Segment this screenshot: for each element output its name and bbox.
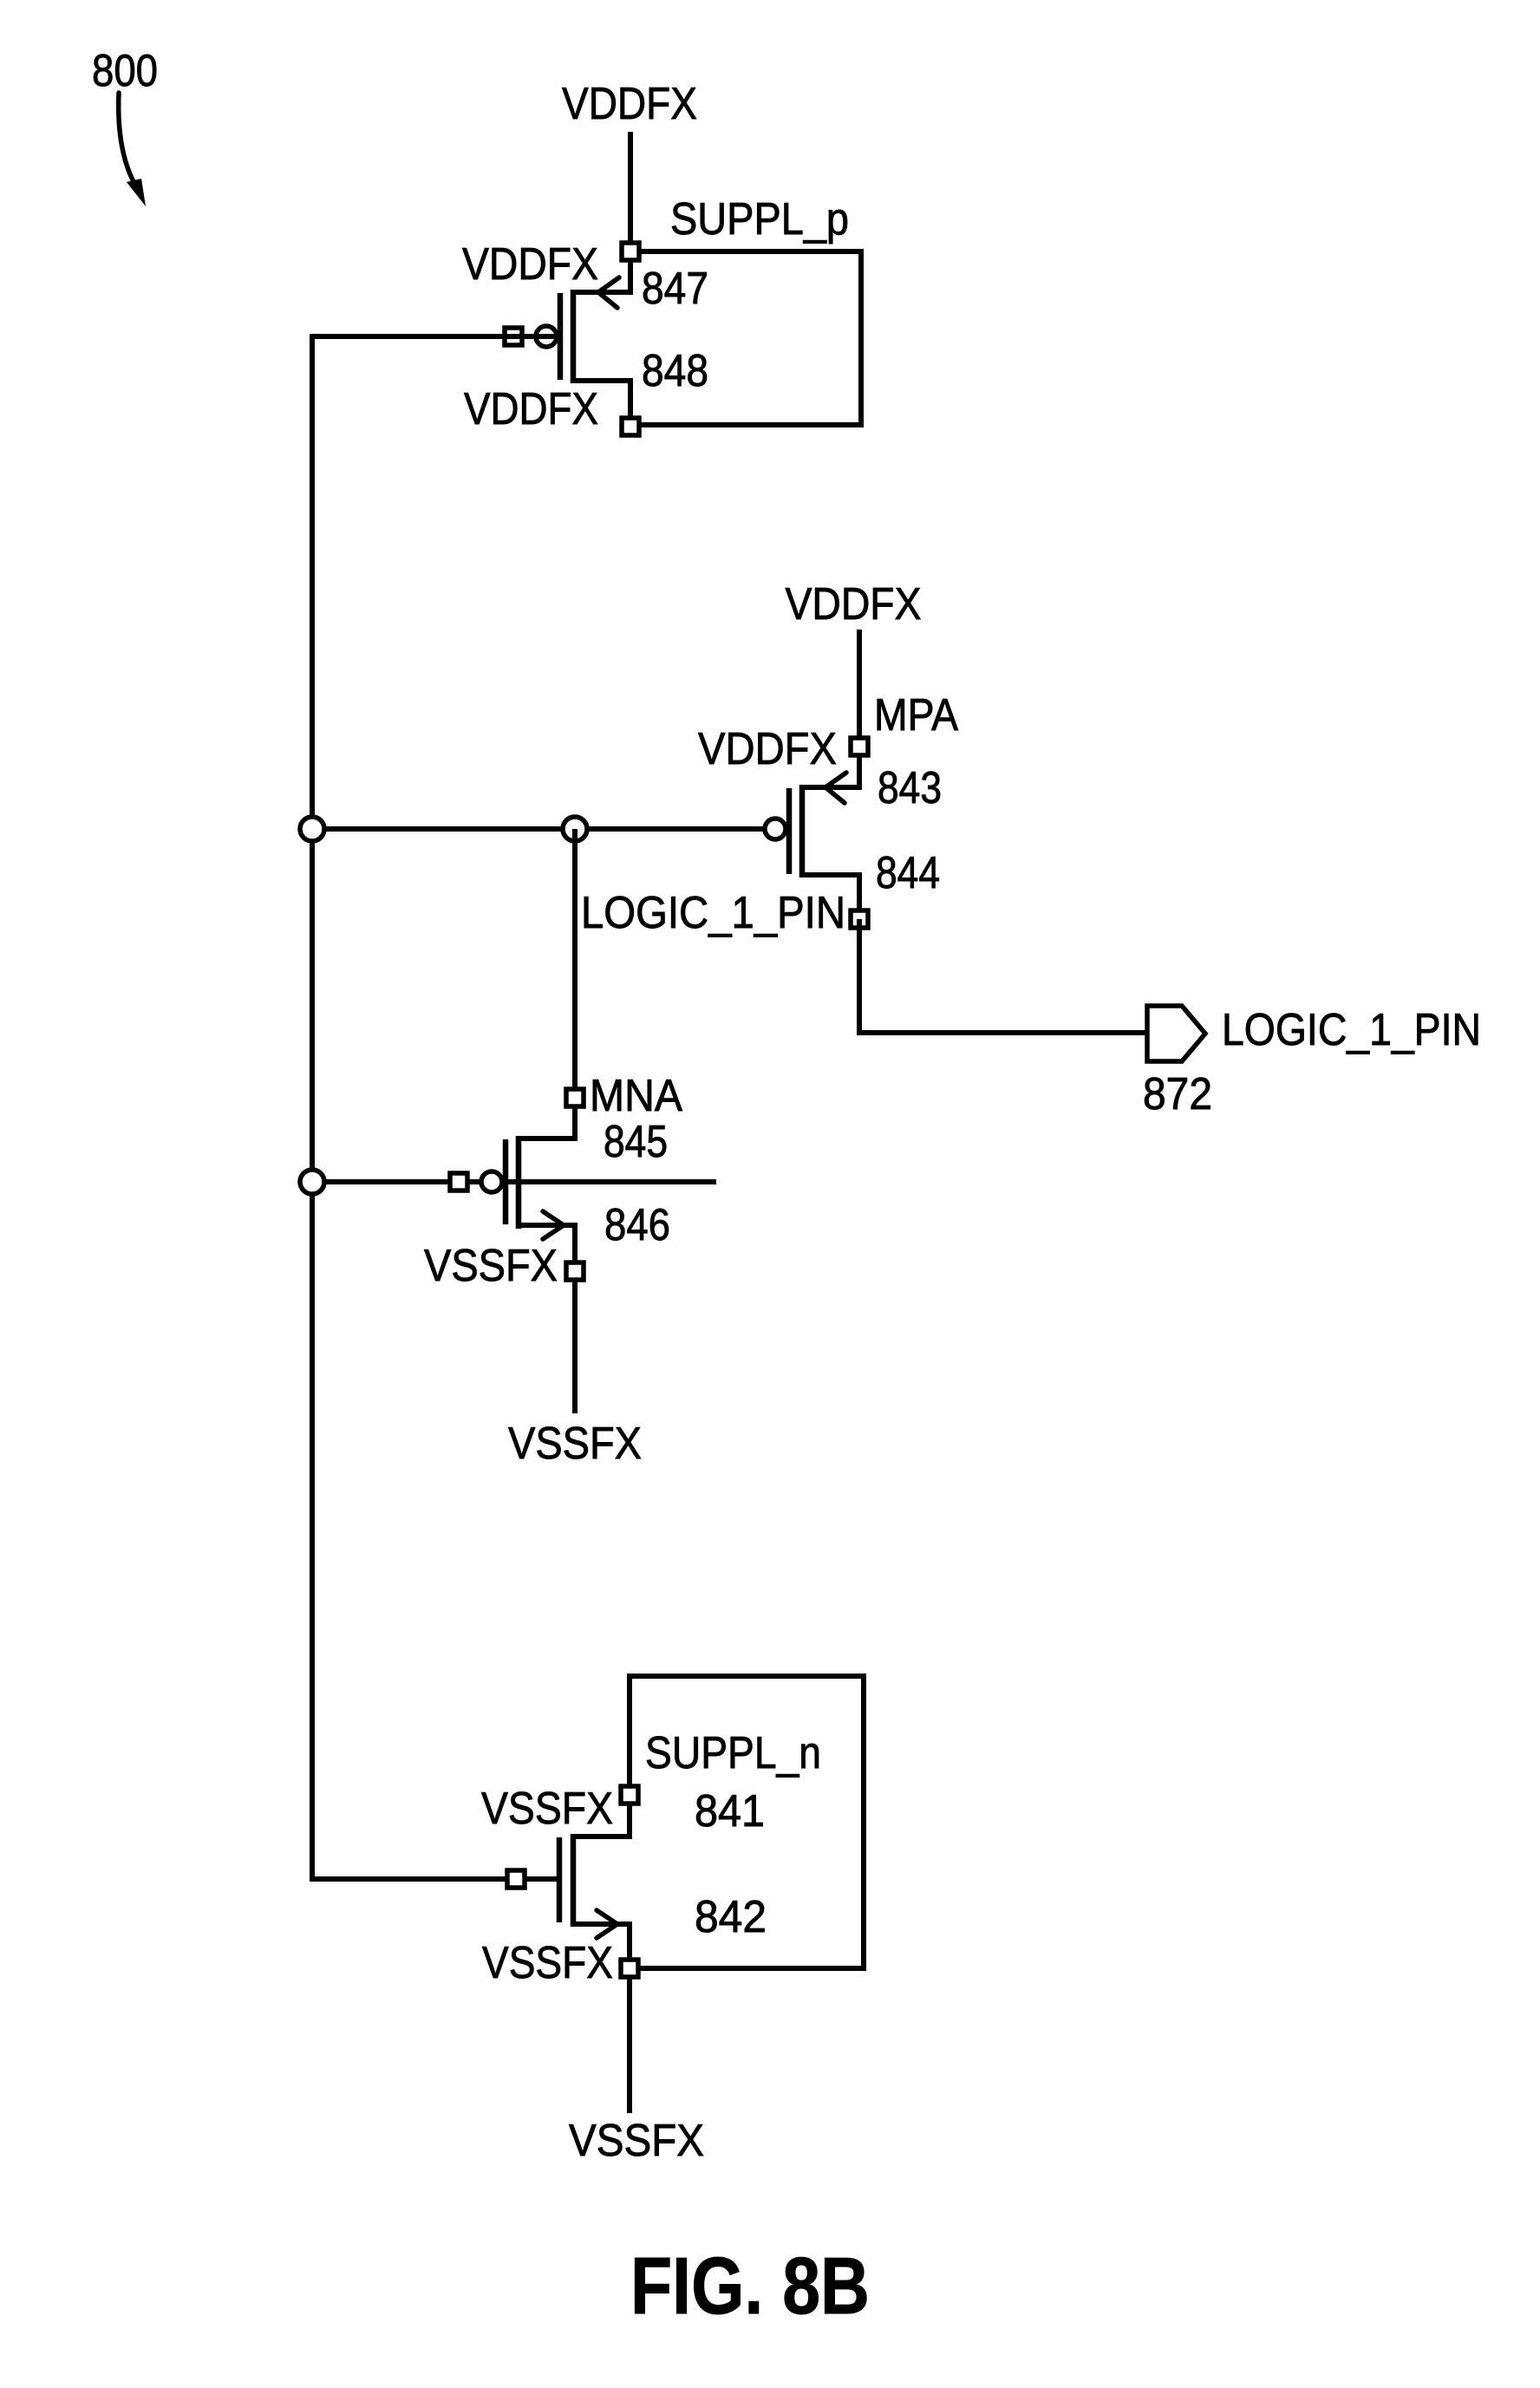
wire drain 842 — [576, 1924, 630, 1968]
svg-text:843: 843 — [878, 763, 942, 813]
arrow drain 842 — [597, 1910, 617, 1938]
pad source MPA — [851, 738, 868, 755]
svg-text:VSSFX: VSSFX — [508, 1419, 642, 1469]
transistor Q847 PMOS — [505, 243, 639, 435]
channel bar MPA — [799, 785, 806, 878]
junction J2 — [563, 817, 587, 841]
wire source 847 — [576, 251, 630, 292]
svg-text:SUPPL_n: SUPPL_n — [645, 1728, 821, 1778]
pad drain 842 — [621, 1960, 638, 1977]
wire source 843 — [805, 747, 859, 787]
svg-text:MPA: MPA — [874, 690, 958, 741]
wire gate row MNA — [312, 1179, 716, 1184]
transistor MPA 843/844 PMOS — [765, 738, 868, 928]
transistor MNA 845/846 NMOS — [312, 1089, 716, 1280]
svg-text:VDDFX: VDDFX — [464, 384, 598, 434]
wire SUPPL_n loop box — [630, 1676, 864, 1968]
junction J1 — [300, 817, 324, 841]
svg-text:841: 841 — [695, 1786, 765, 1837]
svg-text:846: 846 — [604, 1200, 670, 1250]
svg-text:VDDFX: VDDFX — [562, 79, 697, 129]
gate bubble MPA — [765, 819, 786, 839]
wire VDDFX down to pad 847 source — [628, 132, 633, 251]
wire J2 down to MNA — [572, 829, 577, 1098]
svg-text:847: 847 — [642, 264, 708, 314]
wire source 841 — [576, 1795, 630, 1837]
arrow 800 leader — [119, 93, 139, 191]
gate bar MNA — [503, 1139, 509, 1224]
gate pad MNA — [450, 1173, 467, 1191]
wire drain 846 — [521, 1225, 575, 1271]
gate pad 841 — [507, 1870, 525, 1888]
svg-text:SUPPL_p: SUPPL_p — [670, 194, 849, 245]
wire SUPPL_p loop box — [640, 251, 861, 425]
gate bar 847 — [558, 293, 564, 380]
svg-text:MNA: MNA — [590, 1071, 682, 1121]
junction J3 — [300, 1170, 324, 1194]
svg-text:872: 872 — [1143, 1069, 1212, 1119]
pad drain 848 — [622, 418, 639, 435]
arrow source 847 — [598, 277, 619, 308]
gate bar MPA — [786, 788, 793, 874]
svg-text:848: 848 — [642, 346, 708, 396]
pad source 841 — [621, 1786, 638, 1804]
wire source 845 — [521, 1098, 575, 1139]
output port 872 — [1147, 1006, 1205, 1061]
svg-text:VDDFX: VDDFX — [462, 239, 598, 290]
gate bubble MNA — [481, 1171, 502, 1192]
svg-text:VSSFX: VSSFX — [424, 1241, 558, 1291]
svg-text:VSSFX: VSSFX — [482, 1938, 613, 1988]
wire VDDFX down to pad MPA — [857, 630, 862, 747]
channel bar 841 — [571, 1834, 577, 1927]
channel bar 847 — [571, 290, 577, 383]
arrow drain 846 — [543, 1211, 564, 1239]
wire left bus — [312, 336, 558, 1879]
wire 842 to VSSFX stub — [627, 1977, 632, 2113]
svg-text:845: 845 — [604, 1117, 668, 1167]
svg-text:LOGIC_1_PIN: LOGIC_1_PIN — [581, 888, 845, 938]
pad source MNA — [566, 1089, 584, 1106]
gate bubble 847 — [536, 326, 557, 347]
pad drain MPA — [851, 910, 868, 928]
svg-text:VDDFX: VDDFX — [786, 579, 922, 630]
transistor Q841 NMOS — [507, 1786, 638, 1977]
svg-text:842: 842 — [695, 1892, 767, 1942]
svg-text:VDDFX: VDDFX — [698, 724, 837, 774]
wire drain 844 — [805, 875, 859, 919]
wire LOGIC_1_PIN to output — [859, 919, 1147, 1033]
svg-text:844: 844 — [876, 848, 940, 898]
gate pad 847 — [505, 328, 522, 345]
channel bar MNA — [516, 1136, 522, 1229]
svg-text:LOGIC_1_PIN: LOGIC_1_PIN — [1222, 1005, 1481, 1055]
arrow source 843 — [825, 773, 846, 803]
svg-text:800: 800 — [92, 46, 158, 96]
wire gate row to MPA — [312, 826, 783, 832]
wire MNA drain to VSSFX stub — [572, 1280, 577, 1413]
svg-text:VSSFX: VSSFX — [569, 2116, 704, 2166]
pad drain MNA — [566, 1263, 584, 1280]
pad source 847 — [622, 243, 639, 260]
wire drain 848 — [576, 381, 630, 427]
gate bar 841 — [557, 1837, 563, 1922]
svg-text:VSSFX: VSSFX — [481, 1784, 613, 1834]
svg-text:FIG. 8B: FIG. 8B — [630, 2241, 870, 2331]
